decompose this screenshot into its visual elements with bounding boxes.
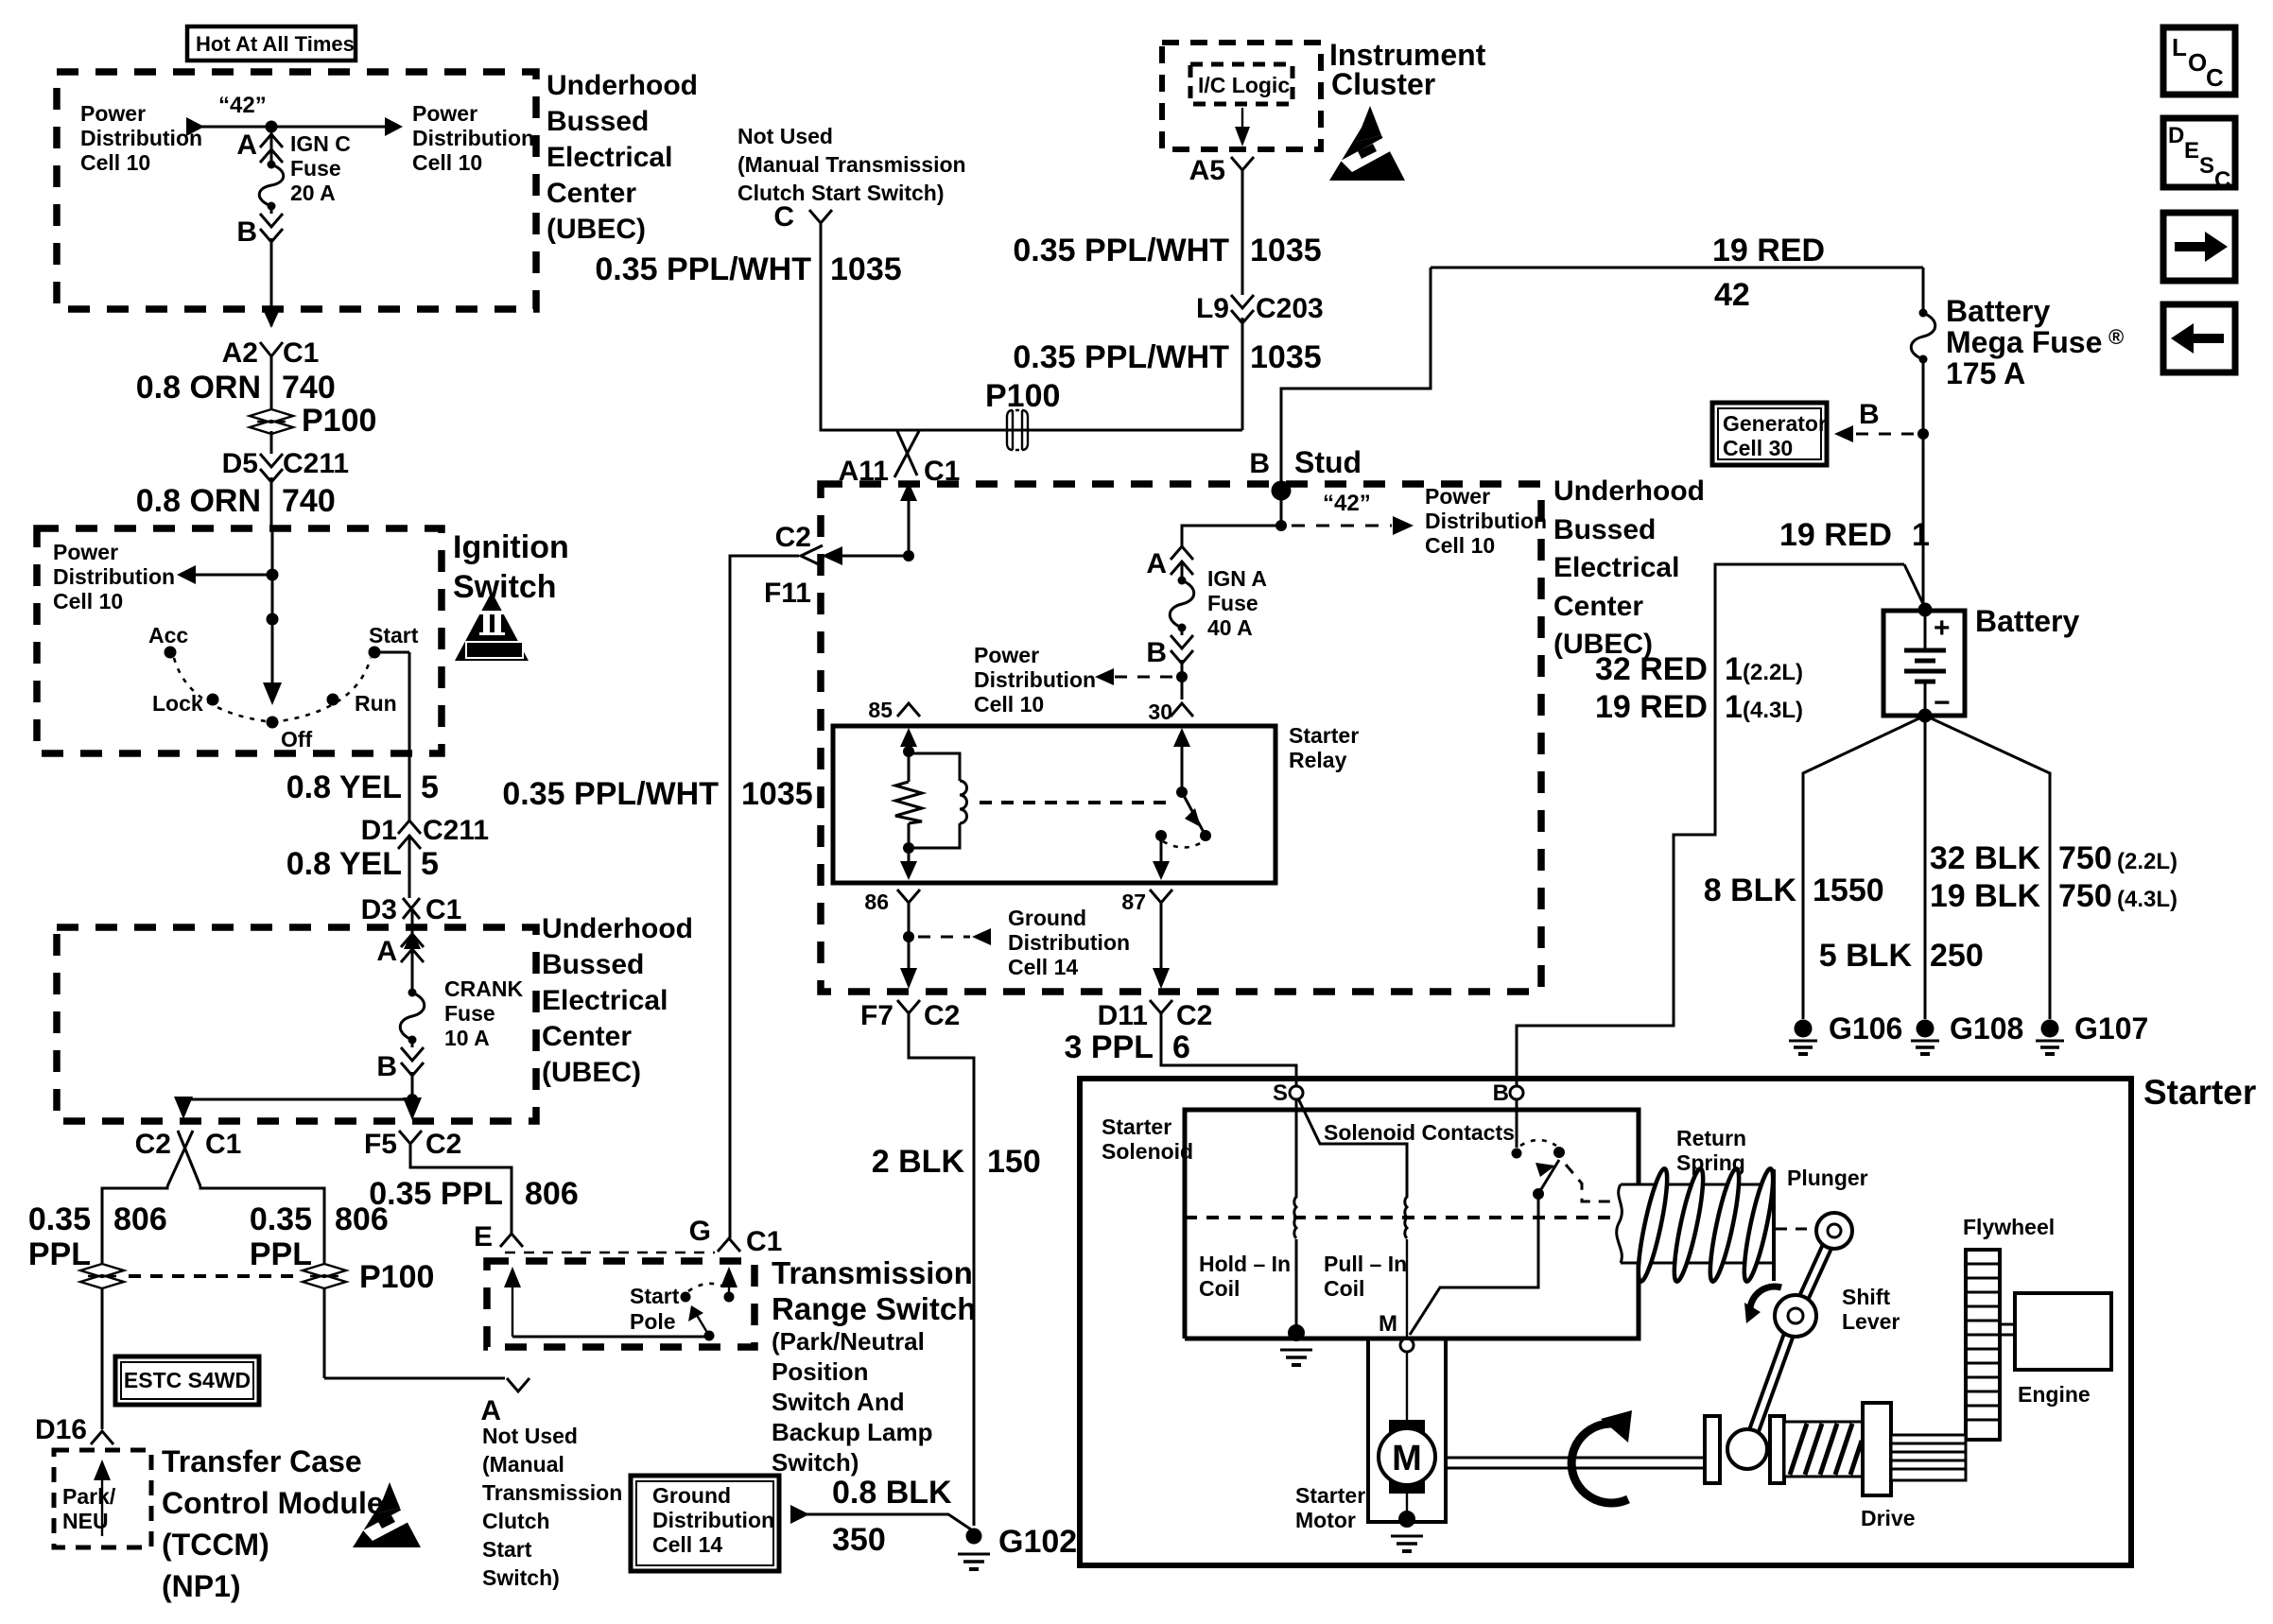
- svg-text:19 RED: 19 RED: [1595, 689, 1708, 725]
- svg-text:A: A: [1146, 548, 1167, 579]
- wire battery negative to G107: [1925, 716, 2050, 1019]
- svg-text:Cell 10: Cell 10: [412, 150, 482, 175]
- connector F5 / C2: [364, 1129, 512, 1234]
- wire label 0.35 PPL/WHT 1035 (F11): [502, 776, 812, 812]
- svg-text:Switch: Switch: [453, 569, 557, 605]
- connector D3 / C1: [361, 894, 462, 945]
- label Power Distribution Cell 10 (left): [80, 101, 202, 175]
- label Power Distribution Cell 10 (ignition): [53, 540, 175, 613]
- svg-text:G102: G102: [998, 1524, 1077, 1560]
- svg-text:Solenoid Contacts: Solenoid Contacts: [1324, 1120, 1515, 1145]
- connector D5 / C211: [222, 448, 349, 528]
- wire S diagonal to pull-in coil: [1298, 1098, 1407, 1198]
- wire ignition feed with left arrow: [177, 528, 282, 705]
- svg-text:740: 740: [282, 370, 336, 406]
- shift lever ball: [1727, 1429, 1767, 1469]
- label Power Distribution Cell 10 (relay): [974, 643, 1096, 717]
- svg-text:1035: 1035: [1250, 339, 1322, 375]
- label Starter Solenoid: [1102, 1114, 1193, 1164]
- svg-text:1035: 1035: [1250, 233, 1322, 268]
- wire label 0.8 YEL 5: [286, 769, 439, 805]
- node 42 bus wire: [186, 93, 403, 136]
- svg-text:−: −: [1934, 687, 1951, 718]
- ground G107: [2036, 1011, 2148, 1054]
- label Starter Relay: [1289, 723, 1359, 772]
- svg-text:(4.3L): (4.3L): [1743, 698, 1803, 723]
- svg-text:10 A: 10 A: [444, 1026, 490, 1050]
- svg-text:Switch): Switch): [772, 1448, 859, 1477]
- connector C2 / F11: [730, 522, 914, 1238]
- svg-text:Hot At All Times: Hot At All Times: [196, 32, 355, 56]
- svg-text:C2: C2: [425, 1129, 461, 1160]
- pin A of IGN A fuse: [1146, 546, 1193, 579]
- svg-text:87: 87: [1121, 890, 1146, 914]
- dashed link between P100 halves: [129, 1274, 298, 1278]
- I/C Logic inner dashed box: [1190, 64, 1293, 104]
- ground (starter motor): [1391, 1511, 1423, 1551]
- svg-text:Distribution: Distribution: [80, 126, 202, 150]
- svg-text:0.8 BLK: 0.8 BLK: [832, 1475, 952, 1511]
- svg-text:S: S: [1273, 1080, 1288, 1106]
- svg-text:C: C: [2206, 63, 2224, 92]
- svg-text:Acc: Acc: [148, 623, 188, 648]
- svg-text:19 RED: 19 RED: [1779, 517, 1892, 553]
- svg-text:175 A: 175 A: [1946, 356, 2025, 390]
- shaft rotation arrow: [1571, 1410, 1632, 1503]
- svg-text:1: 1: [1725, 689, 1743, 725]
- pin 85 of starter relay: [868, 698, 920, 722]
- svg-text:Pole: Pole: [630, 1309, 676, 1334]
- connector C2 / C1 splice: [135, 1129, 242, 1186]
- label box ESTC S4WD: [115, 1356, 259, 1405]
- Starter box: [1080, 1079, 2131, 1565]
- svg-text:Cluster: Cluster: [1331, 67, 1435, 101]
- connector A5: [1189, 155, 1254, 295]
- label Underhood Bussed Electrical Center (UBEC) middle: [1553, 475, 1705, 660]
- dashed plunger link (coils): [1185, 1216, 1611, 1219]
- symbol OBD II: [455, 592, 529, 661]
- svg-text:ESTC S4WD: ESTC S4WD: [124, 1368, 251, 1392]
- dashed relay actuation link: [980, 801, 1171, 804]
- plunger plate: [1774, 1166, 1868, 1281]
- svg-text:(Manual Transmission: (Manual Transmission: [737, 152, 966, 177]
- svg-text:D16: D16: [35, 1414, 87, 1445]
- svg-text:0.8 YEL: 0.8 YEL: [286, 769, 402, 805]
- svg-text:Distribution: Distribution: [652, 1508, 774, 1532]
- svg-text:Electrical: Electrical: [547, 142, 672, 173]
- svg-text:Generator: Generator: [1723, 411, 1827, 436]
- label Not Used (Manual Transmission Clutch Start Switch) top: [737, 124, 966, 205]
- svg-text:5: 5: [421, 769, 439, 805]
- svg-text:0.8 ORN: 0.8 ORN: [136, 370, 261, 406]
- wire fuse B down to box edge: [262, 238, 281, 328]
- svg-text:Bussed: Bussed: [1553, 514, 1656, 545]
- wire 19 RED 1 to starter B: [1517, 564, 1925, 1086]
- svg-text:D: D: [2168, 123, 2184, 148]
- svg-text:B: B: [1493, 1080, 1509, 1106]
- not used line E dashed: [505, 1252, 715, 1254]
- svg-text:Ground: Ground: [1008, 906, 1086, 930]
- svg-text:150: 150: [987, 1144, 1041, 1180]
- svg-text:D3: D3: [361, 894, 397, 925]
- solenoid contact right dot: [1553, 1147, 1565, 1158]
- Instrument Cluster outer dashed box: [1162, 43, 1321, 149]
- svg-text:Coil: Coil: [1199, 1276, 1240, 1301]
- solenoid contact blade: [1410, 1160, 1559, 1335]
- relay coil bottom join: [900, 823, 960, 880]
- svg-text:Power: Power: [80, 101, 146, 126]
- svg-text:C2: C2: [775, 522, 811, 553]
- connector L9 / C203: [1196, 293, 1324, 430]
- drive helix: [1784, 1422, 1863, 1477]
- label Underhood Bussed Electrical Center (UBEC) top-left: [547, 70, 698, 245]
- svg-text:Not Used: Not Used: [482, 1424, 578, 1448]
- svg-text:85: 85: [868, 698, 893, 722]
- svg-text:B: B: [1146, 637, 1167, 668]
- svg-text:(UBEC): (UBEC): [547, 214, 646, 245]
- wire label 0.35 PPL 806 (left): [28, 1201, 167, 1272]
- pin A of CRANK fuse: [376, 934, 424, 991]
- svg-text:G107: G107: [2074, 1011, 2148, 1045]
- svg-text:0.35 PPL/WHT: 0.35 PPL/WHT: [1013, 339, 1229, 375]
- svg-text:Pull – In: Pull – In: [1324, 1252, 1407, 1276]
- shift lever: [1747, 1213, 1900, 1449]
- svg-text:C: C: [773, 201, 794, 233]
- label Ground Distribution Cell 14 (relay): [1008, 906, 1130, 979]
- wire label 0.35 PPL 806 (middle): [250, 1201, 389, 1272]
- wire 42 to fuse: [270, 127, 273, 163]
- svg-text:L: L: [2172, 33, 2187, 61]
- svg-text:Starter: Starter: [1289, 723, 1359, 748]
- svg-text:806: 806: [113, 1201, 167, 1237]
- svg-text:0.8 ORN: 0.8 ORN: [136, 483, 261, 519]
- svg-text:C2: C2: [135, 1129, 171, 1160]
- wire label 2 BLK 150: [872, 1144, 1041, 1180]
- ignition switch position dots and arc: [148, 623, 419, 752]
- svg-text:Transmission: Transmission: [772, 1255, 973, 1290]
- svg-text:Distribution: Distribution: [412, 126, 534, 150]
- svg-text:Underhood: Underhood: [542, 913, 693, 944]
- svg-text:350: 350: [832, 1522, 886, 1558]
- svg-text:Distribution: Distribution: [1425, 509, 1547, 533]
- svg-text:1035: 1035: [741, 776, 813, 812]
- Ignition Switch dashed box: [37, 528, 442, 753]
- label Not Used (Manual Transmission Clutch Start Switch): [482, 1424, 622, 1590]
- junction dot 42 branch: [1275, 520, 1287, 531]
- motor shaft: [1446, 1458, 1705, 1468]
- symbol ESD triangle (cluster): [1329, 106, 1405, 181]
- battery: [1883, 603, 2079, 723]
- svg-text:(2.2L): (2.2L): [2117, 849, 2178, 874]
- svg-text:Power: Power: [53, 540, 118, 564]
- svg-text:Starter: Starter: [1295, 1483, 1365, 1508]
- svg-text:3 PPL: 3 PPL: [1065, 1029, 1154, 1065]
- ground G108: [1911, 1011, 2023, 1054]
- svg-text:Fuse: Fuse: [290, 156, 341, 181]
- svg-text:Electrical: Electrical: [1553, 552, 1679, 583]
- svg-text:E: E: [2184, 138, 2199, 164]
- wire label 0.35 PPL/WHT 1035 (C): [595, 251, 901, 287]
- svg-text:20 A: 20 A: [290, 181, 336, 205]
- UBEC middle dashed box: [821, 484, 1541, 992]
- svg-text:Lever: Lever: [1842, 1309, 1900, 1334]
- svg-text:Backup Lamp: Backup Lamp: [772, 1418, 933, 1446]
- svg-text:D1: D1: [361, 815, 397, 846]
- svg-text:Clutch: Clutch: [482, 1509, 550, 1533]
- relay coil branch 85: [900, 728, 960, 782]
- svg-text:86: 86: [864, 890, 889, 914]
- svg-text:1550: 1550: [1813, 872, 1884, 908]
- legend box left-arrow: [2163, 304, 2235, 372]
- svg-text:P100: P100: [302, 403, 376, 439]
- fuse IGN C 20 A: [259, 131, 351, 211]
- splined shaft: [1891, 1435, 1966, 1480]
- Transmission Range Switch dashed box: [487, 1261, 755, 1347]
- svg-text:A: A: [376, 936, 397, 967]
- svg-text:Bussed: Bussed: [547, 106, 649, 137]
- svg-text:Power: Power: [974, 643, 1039, 667]
- connector F7 / C2: [860, 1000, 974, 1526]
- drive collar right: [1770, 1416, 1784, 1483]
- pull-in coil: [1405, 1197, 1407, 1238]
- svg-text:Starter: Starter: [1102, 1114, 1171, 1139]
- terminal B: [1493, 1080, 1523, 1106]
- svg-text:740: 740: [282, 483, 336, 519]
- svg-text:1: 1: [1912, 517, 1930, 553]
- svg-text:A: A: [236, 130, 257, 161]
- pin 30 of starter relay: [1148, 700, 1193, 724]
- svg-text:250: 250: [1930, 938, 1984, 974]
- Hot At All Times label box: [187, 26, 356, 60]
- svg-text:0.35 PPL: 0.35 PPL: [369, 1176, 503, 1212]
- wire hold-in coil to ground: [1295, 1239, 1298, 1331]
- ground G106: [1789, 1011, 1902, 1054]
- wire 19 RED 42 top: [1431, 233, 1923, 313]
- wire label 8 BLK 1550: [1704, 872, 1884, 908]
- svg-text:Lock: Lock: [152, 691, 203, 716]
- svg-text:Start: Start: [482, 1537, 532, 1562]
- wire label 19 RED 1: [1779, 517, 1930, 553]
- dashed arrow to power distribution cell 10 (relay): [1095, 668, 1188, 685]
- connector P100 (middle horizontal): [985, 378, 1060, 450]
- arrow I/C logic to A5: [1235, 108, 1250, 147]
- svg-text:Motor: Motor: [1295, 1508, 1356, 1532]
- svg-text:PPL: PPL: [28, 1236, 91, 1272]
- label box Generator Cell 30: [1712, 403, 1827, 465]
- connector D1 / C211: [361, 815, 489, 898]
- svg-text:M: M: [1392, 1439, 1422, 1478]
- svg-text:Clutch Start Switch): Clutch Start Switch): [737, 181, 945, 205]
- wire A not used branch: [324, 1378, 529, 1391]
- svg-text:Cell 10: Cell 10: [974, 692, 1044, 717]
- arrow into TCCM: [94, 1460, 111, 1536]
- wire Start to ignition box exit: [374, 652, 409, 821]
- wire 0.8 BLK 350 to G102: [790, 1475, 974, 1558]
- solenoid contact dashed arc: [1520, 1140, 1556, 1146]
- svg-text:Underhood: Underhood: [547, 70, 698, 101]
- svg-text:C1: C1: [746, 1226, 782, 1257]
- svg-text:Distribution: Distribution: [53, 564, 175, 589]
- svg-text:C1: C1: [205, 1129, 241, 1160]
- svg-text:IGN A: IGN A: [1207, 566, 1267, 591]
- label Park/NEU: [62, 1484, 116, 1533]
- label Power Distribution Cell 10 (right): [412, 101, 534, 175]
- svg-text:“42”: “42”: [1323, 491, 1371, 516]
- wire label 32 BLK 750 (2.2L): [1930, 840, 2178, 876]
- return spring coils: [1633, 1167, 1778, 1284]
- pin B of IGN A fuse: [1146, 628, 1193, 700]
- svg-text:Control Module: Control Module: [162, 1486, 384, 1520]
- svg-text:Off: Off: [281, 727, 313, 752]
- svg-text:(2.2L): (2.2L): [1743, 660, 1803, 685]
- label Underhood Bussed Electrical Center (UBEC) lower-left: [542, 913, 693, 1088]
- svg-text:0.35: 0.35: [28, 1201, 91, 1237]
- svg-text:6: 6: [1172, 1029, 1190, 1065]
- svg-text:E: E: [474, 1221, 493, 1253]
- svg-text:C1: C1: [425, 894, 461, 925]
- svg-text:Hold – In: Hold – In: [1199, 1252, 1291, 1276]
- wire to left P100 branch: [102, 1186, 167, 1263]
- fuse Battery Mega Fuse 175 A: [1911, 294, 2124, 606]
- connector P100 (left): [80, 1264, 124, 1429]
- ground G102: [958, 1524, 1077, 1569]
- svg-text:Flywheel: Flywheel: [1963, 1215, 2055, 1239]
- dashed arrow generator B: [1834, 399, 1929, 442]
- svg-text:(Park/Neutral: (Park/Neutral: [772, 1327, 925, 1356]
- svg-text:B: B: [1859, 399, 1880, 430]
- drive collar left: [1705, 1416, 1720, 1483]
- start pole dashed arc: [688, 1284, 726, 1291]
- label Transmission Range Switch: [772, 1255, 976, 1326]
- svg-text:8 BLK: 8 BLK: [1704, 872, 1797, 908]
- wire label 19 RED 1 (4.3L): [1595, 689, 1803, 725]
- label Ignition Switch: [453, 529, 569, 605]
- svg-text:IGN C: IGN C: [290, 131, 351, 156]
- ground G102 and box Ground Distribution Cell 14: [631, 1476, 779, 1571]
- wire battery negative to G108: [1924, 716, 1927, 1019]
- svg-text:Relay: Relay: [1289, 748, 1347, 772]
- wire S to hold-in coil: [1295, 1099, 1298, 1198]
- wire label 0.8 ORN 740: [136, 370, 336, 406]
- arrow A11 into UBEC: [900, 482, 917, 556]
- connector A2 / C1: [222, 337, 320, 408]
- svg-text:Start: Start: [369, 623, 419, 648]
- wire stud to IGN A fuse: [1182, 526, 1281, 546]
- svg-text:42: 42: [1714, 277, 1750, 313]
- svg-text:0.35 PPL/WHT: 0.35 PPL/WHT: [595, 251, 811, 287]
- pin 87 of starter relay: [1121, 890, 1172, 989]
- switch start pole arrow right: [720, 1267, 737, 1303]
- wire label 0.8 YEL 5 (second): [286, 846, 439, 882]
- svg-text:(NP1): (NP1): [162, 1569, 241, 1603]
- connector P100 (middle): [303, 1259, 434, 1378]
- pin B of IGN C fuse: [236, 206, 283, 248]
- svg-text:F7: F7: [860, 1000, 894, 1031]
- resistor (relay): [895, 782, 922, 823]
- engine box: [2000, 1293, 2111, 1407]
- svg-text:C2: C2: [1176, 1000, 1212, 1031]
- svg-text:D5: D5: [222, 448, 258, 479]
- start pole contact dot: [681, 1292, 691, 1303]
- svg-text:C203: C203: [1256, 293, 1324, 324]
- dashed plunger to shift lever: [1776, 1228, 1812, 1231]
- svg-text:B: B: [376, 1051, 397, 1082]
- pin A of IGN C fuse: [236, 130, 283, 163]
- svg-text:A5: A5: [1189, 155, 1225, 186]
- svg-text:19 BLK: 19 BLK: [1930, 878, 2041, 914]
- pin B of CRANK fuse: [376, 1040, 424, 1120]
- svg-text:32 RED: 32 RED: [1595, 651, 1708, 687]
- label Transfer Case Control Module (TCCM) (NP1): [162, 1444, 384, 1603]
- label Pull-In Coil: [1324, 1252, 1407, 1301]
- svg-text:Distribution: Distribution: [1008, 930, 1130, 955]
- svg-text:30: 30: [1148, 700, 1172, 724]
- svg-text:Starter: Starter: [2143, 1073, 2256, 1112]
- wire label 19 BLK 750 (4.3L): [1930, 878, 2178, 914]
- svg-text:F5: F5: [364, 1129, 397, 1160]
- svg-text:Cell 14: Cell 14: [1008, 955, 1078, 979]
- label Hold-In Coil: [1199, 1252, 1291, 1301]
- label Power Distribution Cell 10 (stud): [1425, 484, 1547, 558]
- symbol ESD triangle (TCCM): [353, 1482, 421, 1547]
- wire 19 RED down to stud: [1281, 268, 1431, 522]
- svg-text:Underhood: Underhood: [1553, 475, 1705, 507]
- fuse IGN A 40 A: [1170, 566, 1267, 640]
- svg-text:Mega Fuse: Mega Fuse: [1946, 325, 2102, 359]
- svg-text:Shift: Shift: [1842, 1285, 1890, 1309]
- svg-text:Coil: Coil: [1324, 1276, 1364, 1301]
- legend box right-arrow: [2163, 213, 2235, 281]
- svg-text:CRANK: CRANK: [444, 976, 523, 1001]
- svg-text:®: ®: [2108, 325, 2124, 349]
- svg-text:Cell 10: Cell 10: [1425, 533, 1495, 558]
- svg-text:A: A: [480, 1395, 501, 1426]
- stud B junction: [1249, 445, 1362, 501]
- svg-text:Center: Center: [1553, 591, 1643, 622]
- svg-text:+: +: [1934, 613, 1951, 644]
- svg-text:G106: G106: [1829, 1011, 1902, 1045]
- solenoid inner box: [1185, 1110, 1639, 1339]
- Transfer Case Control Module dashed box: [54, 1450, 151, 1547]
- switch frame solid: [512, 1336, 709, 1339]
- svg-text:Battery: Battery: [1975, 604, 2079, 638]
- svg-text:L9: L9: [1196, 293, 1229, 324]
- svg-text:1035: 1035: [830, 251, 902, 287]
- svg-text:19 RED: 19 RED: [1712, 233, 1825, 268]
- starter motor: [1295, 1339, 1446, 1532]
- svg-text:0.35 PPL/WHT: 0.35 PPL/WHT: [502, 776, 719, 812]
- svg-text:Electrical: Electrical: [542, 985, 668, 1016]
- svg-text:C2: C2: [924, 1000, 960, 1031]
- svg-text:Power: Power: [1425, 484, 1490, 509]
- connector G / C1: [689, 1216, 783, 1257]
- label Return Spring: [1676, 1126, 1746, 1175]
- svg-text:Plunger: Plunger: [1787, 1166, 1868, 1190]
- svg-text:(TCCM): (TCCM): [162, 1528, 269, 1562]
- svg-text:Fuse: Fuse: [444, 1001, 495, 1026]
- svg-text:G108: G108: [1950, 1011, 2023, 1045]
- svg-text:0.8 YEL: 0.8 YEL: [286, 846, 402, 882]
- svg-text:Switch And: Switch And: [772, 1388, 905, 1416]
- switch start pole arrow left: [504, 1267, 521, 1337]
- svg-text:Run: Run: [355, 691, 397, 716]
- legend box LOC: [2163, 27, 2235, 95]
- connector P100 (inline, top): [250, 403, 376, 454]
- svg-text:806: 806: [525, 1176, 579, 1212]
- svg-text:P100: P100: [985, 378, 1060, 414]
- label (Park/Neutral Position Switch And Backup Lamp Switch): [772, 1327, 933, 1477]
- label Instrument Cluster: [1329, 38, 1486, 101]
